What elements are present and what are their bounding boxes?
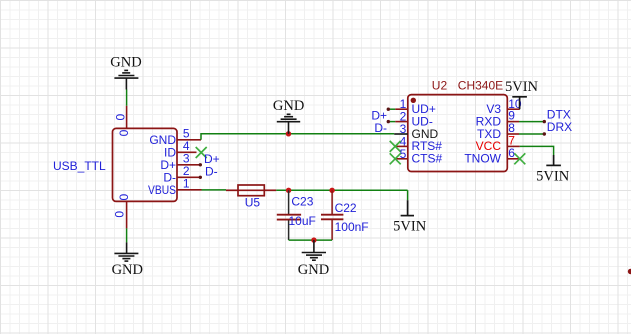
svg-text:5VIN: 5VIN — [536, 169, 570, 185]
ground GND (below caps) — [302, 240, 326, 260]
wire pin5 jog up — [201, 134, 394, 140]
power 5VIN (mid) — [401, 200, 414, 215]
wire D- stub — [388, 121, 395, 123]
junction C22 — [329, 188, 334, 193]
wire-end dot pin 3 — [199, 163, 202, 166]
no-connect X pin 6 — [514, 153, 525, 164]
no-connect X pin 5 — [390, 153, 401, 164]
svg-text:U5: U5 — [245, 195, 261, 209]
junction C23 — [286, 188, 291, 193]
svg-text:6: 6 — [508, 146, 515, 160]
clipped element dot (right edge) — [628, 269, 631, 274]
power 5VIN (right) — [546, 155, 561, 165]
pin 1 UD+ — [395, 108, 408, 110]
ground GND (top, flipped) — [114, 70, 138, 89]
pin 4 ID stub — [177, 151, 197, 153]
pin 3 D+ stub — [177, 164, 200, 166]
connector shell pin bottom (pin 0) — [126, 201, 128, 228]
pin 10 V3 — [507, 108, 520, 110]
wire to 5VIN (mid) — [407, 190, 409, 200]
wire-end dot pin 2 — [199, 176, 202, 179]
power 5VIN (top) — [512, 97, 527, 109]
svg-text:U2: U2 — [432, 78, 448, 92]
junction caps-gnd — [311, 237, 316, 242]
pin 2 D- stub — [177, 176, 200, 178]
pin 4 RTS# — [395, 145, 408, 147]
no-connect X pin 4 — [390, 141, 401, 152]
capacitor C22 — [331, 190, 333, 214]
capacitor C23 — [288, 190, 290, 214]
wire TXD-DRX — [519, 133, 544, 135]
svg-text:GND: GND — [112, 262, 143, 278]
pin 6 TNOW — [507, 158, 520, 160]
wire D+ stub — [388, 108, 395, 110]
wire VCC-5VIN — [520, 146, 554, 155]
svg-text:VBUS: VBUS — [148, 183, 176, 197]
svg-text:USB_TTL: USB_TTL — [53, 159, 106, 173]
wire caps bottom — [289, 239, 333, 241]
svg-text:5VIN: 5VIN — [505, 79, 539, 95]
pin 2 UD- — [395, 121, 408, 123]
wire GND-to-connector-shell — [126, 90, 128, 106]
pin 9 RXD — [507, 121, 519, 123]
wire VBUS to fuse — [202, 189, 227, 191]
fuse U5 — [226, 185, 276, 196]
svg-text:C22: C22 — [335, 201, 357, 215]
svg-text:GND: GND — [110, 55, 141, 71]
svg-text:0: 0 — [117, 194, 131, 201]
pin 3 GND (black stub) — [394, 133, 408, 135]
ground GND (bottom left) — [114, 242, 138, 261]
wire shell-to-ground — [126, 228, 128, 242]
connector USB_TTL body — [113, 128, 178, 201]
connector J shell pin top (pin 0) — [126, 106, 128, 129]
pin 5 GND stub — [177, 139, 201, 141]
svg-text:CH340E: CH340E — [458, 78, 503, 92]
svg-text:10uF: 10uF — [289, 214, 316, 228]
svg-text:D-: D- — [205, 164, 218, 178]
wire RXD-DTX — [519, 121, 544, 123]
svg-text:1: 1 — [183, 177, 190, 191]
svg-text:TNOW: TNOW — [464, 152, 501, 166]
svg-text:C23: C23 — [291, 194, 313, 208]
svg-text:0: 0 — [117, 129, 131, 136]
no-connect X pin 4 — [196, 147, 207, 158]
svg-text:100nF: 100nF — [335, 220, 369, 234]
pin 8 TXD — [507, 133, 519, 135]
pin 7 VCC — [507, 145, 520, 147]
ground GND (middle, flipped) — [277, 114, 300, 134]
svg-text:5VIN: 5VIN — [393, 219, 427, 235]
svg-text:0: 0 — [113, 113, 127, 120]
svg-text:CTS#: CTS# — [412, 152, 443, 166]
junction on GND wire — [286, 131, 291, 136]
IC U2 body — [408, 95, 508, 172]
wire fuse to junctions — [276, 189, 407, 191]
svg-text:GND: GND — [298, 262, 329, 278]
svg-text:D-: D- — [374, 121, 387, 135]
pin 5 CTS# — [395, 158, 408, 160]
svg-text:GND: GND — [273, 98, 304, 114]
svg-text:0: 0 — [113, 211, 127, 218]
pin-1 mark — [411, 98, 416, 103]
svg-text:DRX: DRX — [547, 120, 572, 134]
pin 1 VBUS stub — [177, 189, 202, 191]
